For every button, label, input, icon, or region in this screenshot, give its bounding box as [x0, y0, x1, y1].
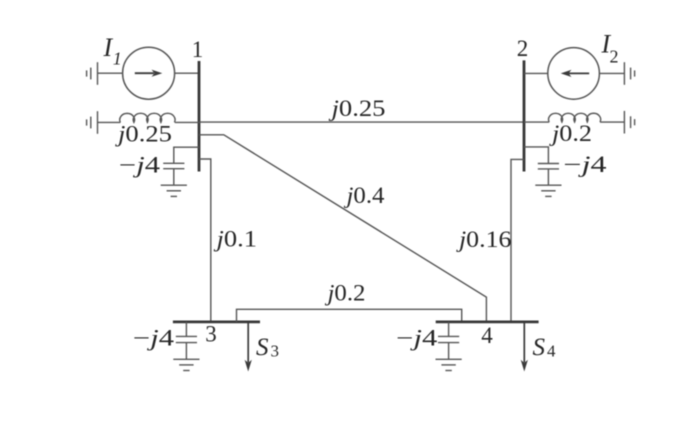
svg-text:j0.1: j0.1	[213, 227, 257, 252]
svg-text:j0.25: j0.25	[115, 122, 172, 147]
capacitor C4 -j4	[438, 322, 459, 359]
wire (bus 2 to L2)	[524, 121, 549, 123]
svg-text:j0.2: j0.2	[549, 121, 592, 146]
wire (L2 to right ground)	[600, 121, 624, 123]
line j0.4 (bus1 - bus4)	[199, 135, 486, 322]
bus 4	[436, 320, 539, 323]
inductor L1	[120, 113, 175, 122]
load arrow S3	[245, 322, 252, 372]
ground (C3)	[173, 359, 199, 370]
wire (I1 to bus 1)	[175, 72, 199, 74]
ground (right, inductor L2)	[624, 111, 634, 134]
wire (L1 to bus 1)	[175, 121, 199, 123]
wire (ground to I1)	[98, 72, 123, 74]
svg-text:1: 1	[192, 37, 204, 62]
ground (C4)	[436, 359, 462, 370]
bus 1	[198, 61, 201, 172]
svg-text:2: 2	[610, 47, 619, 67]
svg-text:4: 4	[481, 323, 493, 348]
ground (C2)	[535, 185, 561, 196]
svg-text:S: S	[256, 334, 269, 361]
capacitor C2 -j4	[524, 147, 559, 185]
ground (left, current source I1 feed)	[87, 62, 98, 85]
capacitor C3 -j4	[176, 322, 197, 359]
current source I2	[548, 48, 600, 100]
line j0.2 (bus3 - bus4)	[237, 309, 462, 322]
capacitor C1 -j4	[163, 147, 199, 185]
svg-text:S: S	[533, 334, 546, 361]
wire (ground to L1)	[98, 121, 121, 123]
svg-text:j0.16: j0.16	[456, 227, 512, 252]
bus 3	[173, 320, 260, 323]
ground (left, inductor L1 feed)	[87, 111, 98, 134]
wire (I2 to right ground)	[599, 72, 624, 74]
svg-text:4: 4	[547, 342, 556, 361]
svg-text:j0.25: j0.25	[328, 96, 385, 121]
svg-text:−j4: −j4	[396, 326, 438, 351]
line j0.16 (bus2 - bus4)	[511, 159, 524, 322]
svg-text:j0.2: j0.2	[324, 281, 365, 306]
svg-text:1: 1	[113, 49, 122, 69]
current source I1	[123, 47, 175, 99]
line j0.1 (bus1 - bus3)	[199, 159, 211, 322]
svg-text:3: 3	[205, 321, 217, 346]
bus 2	[523, 60, 526, 171]
svg-text:−j4: −j4	[564, 152, 608, 177]
svg-text:2: 2	[517, 36, 529, 61]
line j0.25 (bus1 - bus2)	[199, 121, 524, 123]
ground (C1)	[161, 185, 187, 196]
svg-text:−j4: −j4	[133, 326, 175, 351]
svg-text:j0.4: j0.4	[343, 183, 385, 208]
svg-text:−j4: −j4	[119, 153, 161, 178]
load arrow S4	[521, 322, 528, 372]
svg-text:3: 3	[271, 342, 280, 361]
ground (right, current source I2)	[624, 62, 634, 85]
inductor L2	[549, 113, 601, 122]
wire (bus 2 to I2)	[524, 72, 548, 74]
